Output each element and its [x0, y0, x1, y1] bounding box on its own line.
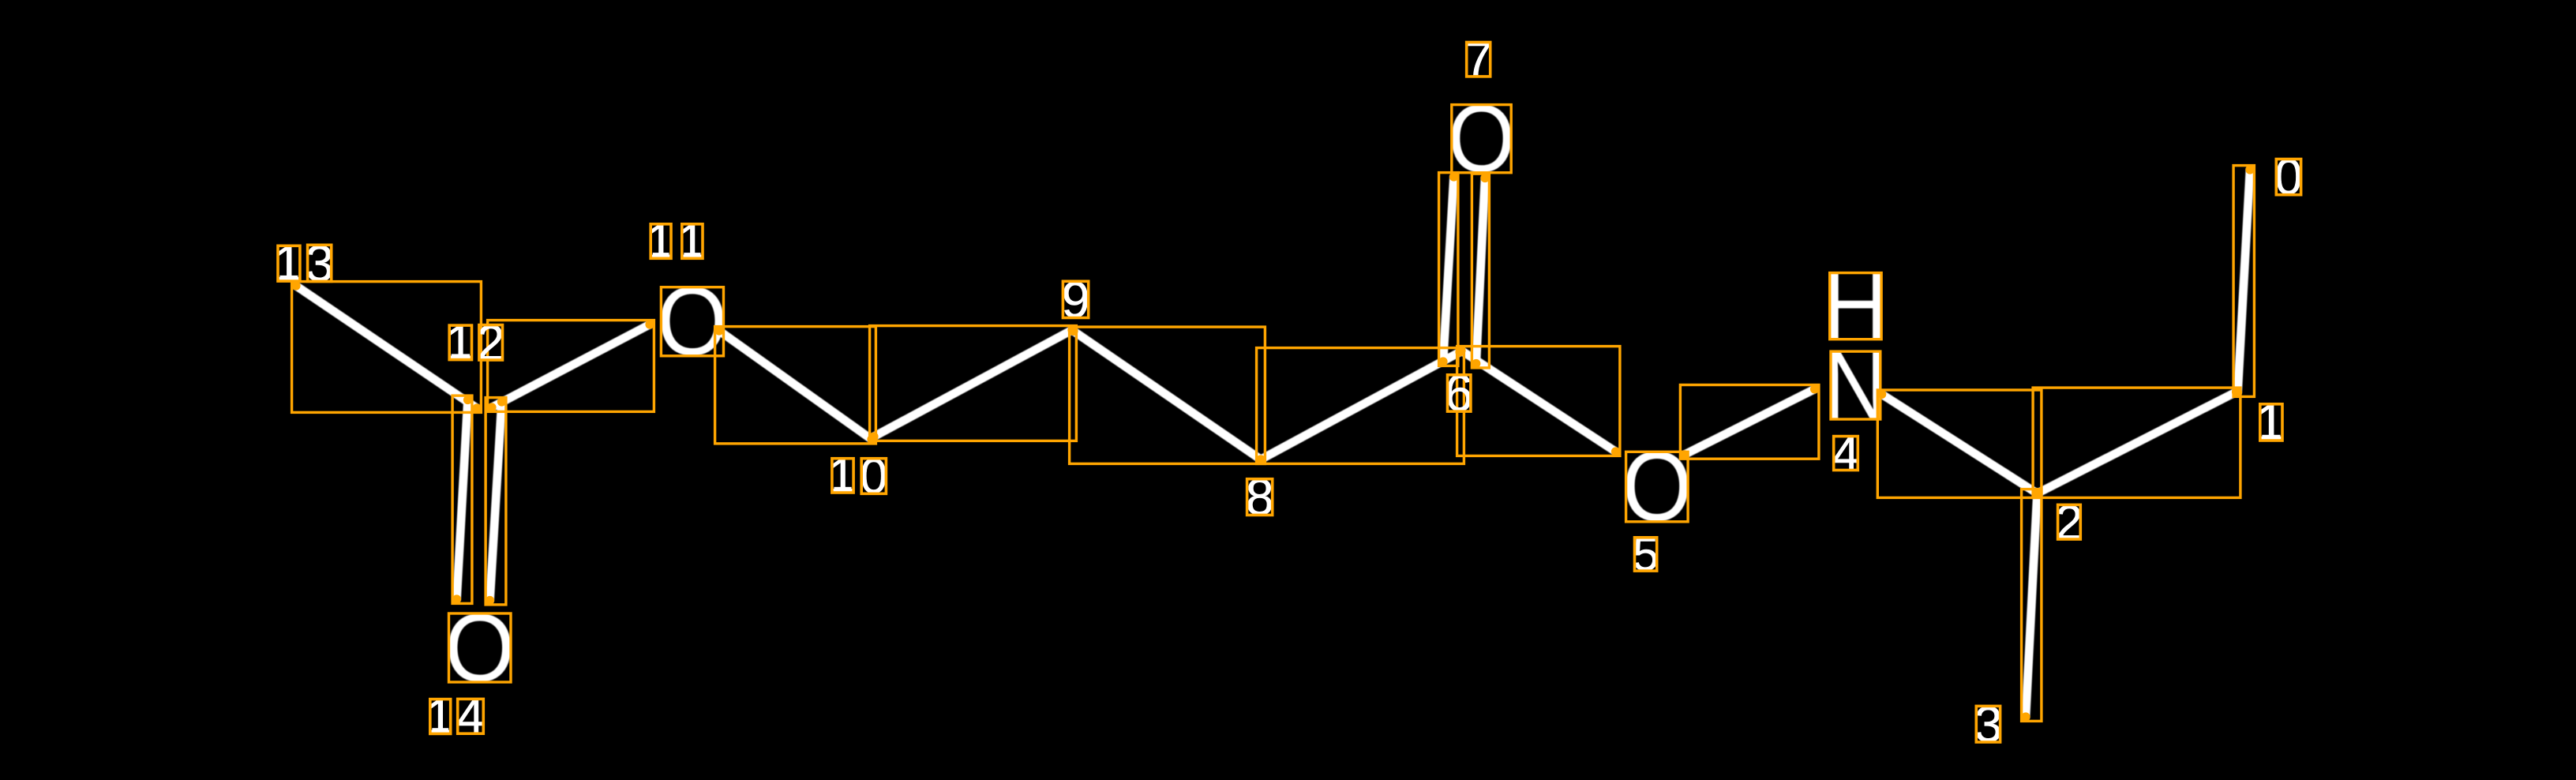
atom O11 — [657, 268, 728, 376]
index label 0 — [2274, 148, 2303, 205]
endpoint dots of bond C9-C8 — [1069, 327, 1078, 336]
bond N4-C2 — [1882, 394, 2038, 493]
bond C2-C3 — [2026, 493, 2038, 717]
bond C6=O7 line b — [1476, 178, 1485, 364]
endpoint dots of bond C2-C3 — [2033, 489, 2042, 497]
index label 6 — [1445, 364, 1473, 422]
svg-text:2: 2 — [2056, 495, 2083, 550]
index label 9 — [1061, 271, 1089, 328]
bbox of bond C12-O11 — [488, 321, 654, 412]
atom N4 N — [1824, 331, 1888, 441]
bbox of bond C12=O14 line a — [452, 396, 472, 603]
svg-text:O: O — [444, 594, 515, 702]
endpoint dots of bond C2-C1 — [2033, 489, 2042, 497]
bbox of atom O14 — [449, 613, 512, 682]
bond C12=O14 line b — [490, 402, 502, 601]
endpoint dots of bond C1-C0 — [2245, 165, 2254, 174]
index label 8 — [1246, 469, 1274, 526]
bond C1-C0 — [2238, 170, 2251, 392]
bbox of atom N4 N — [1831, 351, 1880, 419]
bbox of bond C9-C8 — [1070, 327, 1266, 463]
index label 12 — [446, 315, 505, 371]
endpoint dots of bond C10-C9 — [869, 432, 878, 441]
svg-text:8: 8 — [1246, 469, 1274, 526]
svg-text:3: 3 — [306, 234, 334, 292]
bbox of bond C2-C3 — [2022, 489, 2042, 722]
svg-text:5: 5 — [1633, 527, 1659, 580]
bbox of bond C6-O5 — [1457, 347, 1620, 456]
bbox of bond C8-C6 — [1257, 348, 1464, 464]
index label 10 — [828, 448, 887, 504]
index label 3 — [1974, 696, 2003, 752]
bond O11-C10 — [719, 331, 872, 440]
endpoint dots of bond O5-N4 — [1680, 450, 1689, 459]
bond C9-C8 — [1074, 332, 1261, 460]
bbox of bond O5-N4 — [1680, 385, 1819, 459]
atom O14 — [444, 594, 515, 702]
bbox of bond C6=O7 line a — [1439, 173, 1458, 366]
endpoint dots of bond N4-C2 — [1877, 390, 1886, 399]
endpoint dots of bond C13-C12 — [291, 281, 300, 290]
bbox of bond N4-C2 — [1877, 390, 2042, 497]
bond C12-O11 — [492, 324, 650, 407]
bbox of bond C10-C9 — [870, 326, 1077, 441]
bond C8-C6 — [1261, 352, 1460, 459]
bond C12=O14 line a — [457, 400, 468, 600]
bond O5-N4 — [1685, 389, 1815, 455]
index label 14 — [426, 688, 485, 744]
endpoint dots of bond C12=O14 line b — [497, 397, 506, 406]
bbox of atom N4 H — [1830, 273, 1881, 339]
index label 4 — [1832, 427, 1860, 482]
svg-text:0: 0 — [2274, 148, 2303, 205]
bond C6-O5 — [1461, 351, 1616, 452]
svg-text:2: 2 — [477, 315, 504, 371]
bond C13-C12 — [296, 286, 477, 408]
endpoint dots of bond C8-C6 — [1256, 455, 1265, 463]
svg-text:3: 3 — [1974, 696, 2003, 752]
bond C10-C9 — [874, 330, 1072, 437]
index label 11 — [647, 214, 706, 269]
index label 5 — [1633, 527, 1659, 580]
index label 1 — [2255, 393, 2285, 452]
bond C6=O7 line a — [1443, 177, 1454, 362]
endpoint dots of bond O11-C10 — [714, 326, 723, 335]
index label 2 — [2056, 495, 2083, 550]
bbox of bond C13-C12 — [292, 282, 482, 413]
bbox of bond O11-C10 — [715, 327, 876, 444]
atom O5 — [1622, 432, 1692, 542]
atom N4 H — [1822, 253, 1888, 360]
endpoint dots of bond C6=O7 line a — [1449, 172, 1458, 181]
atom O7 — [1448, 85, 1516, 193]
endpoint dots of bond C12-O11 — [487, 403, 496, 411]
svg-text:O: O — [1622, 432, 1692, 542]
index label 7 — [1464, 32, 1492, 88]
bbox of bond C2-C1 — [2033, 388, 2240, 497]
bbox of bond C1-C0 — [2233, 166, 2254, 397]
bbox of bond C12=O14 line b — [486, 398, 506, 605]
endpoint dots of bond C12=O14 line a — [463, 396, 472, 404]
index label 13 — [274, 234, 334, 292]
bbox of atom O11 — [661, 287, 723, 356]
endpoint dots of bond C6-O5 — [1457, 346, 1465, 354]
svg-text:9: 9 — [1061, 271, 1089, 328]
svg-text:7: 7 — [1464, 32, 1492, 88]
bbox of atom O7 — [1452, 105, 1511, 173]
bond C2-C1 — [2038, 392, 2237, 494]
bbox of bond C6=O7 line b — [1472, 174, 1489, 368]
bbox of atom O5 — [1626, 452, 1689, 522]
svg-text:O: O — [657, 268, 728, 376]
svg-text:4: 4 — [457, 688, 485, 744]
endpoint dots of bond C6=O7 line b — [1480, 174, 1489, 182]
